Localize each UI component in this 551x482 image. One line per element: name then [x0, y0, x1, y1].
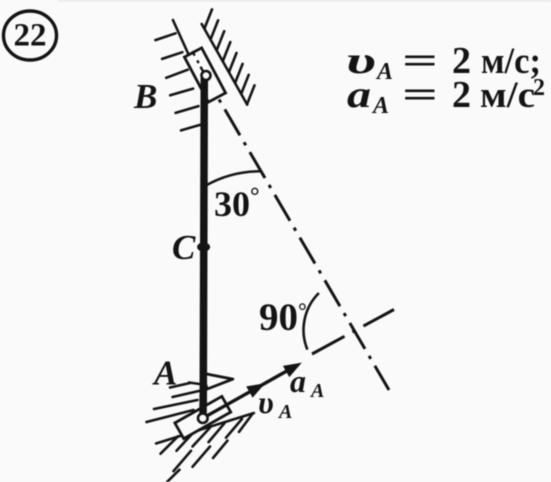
guide rails of slider B	[173, 20, 247, 105]
ground line under slider A	[156, 413, 254, 444]
hatching upper-left of slider A	[147, 383, 202, 422]
support triangle at A	[202, 373, 233, 389]
svg-text:2: 2	[533, 75, 545, 101]
dash-dot axis from B down to intersection	[219, 100, 389, 391]
svg-text:=: =	[402, 75, 438, 116]
dash-dot continuation beyond a_A	[312, 310, 394, 355]
rod stub over slider A	[199, 394, 207, 418]
arrowhead v_A	[247, 384, 264, 397]
problem number badge circle 22	[4, 11, 57, 60]
svg-text:υ: υ	[258, 384, 274, 420]
pin A	[198, 413, 208, 423]
short ledge line left of rod at A	[189, 383, 203, 385]
hatching right of slider B guide	[205, 9, 255, 104]
slider block A	[175, 396, 231, 438]
svg-text:22: 22	[14, 18, 47, 54]
svg-text:A: A	[277, 401, 292, 423]
svg-text:м/с: м/с	[480, 75, 535, 116]
scan artifact top line	[58, 0, 551, 2]
svg-text:2: 2	[452, 74, 471, 116]
hatching left of slider B guide	[155, 33, 204, 130]
ground hatching under slider A row 1	[161, 415, 253, 454]
svg-text:a: a	[290, 363, 306, 399]
slot centerline inside slider B	[192, 51, 203, 72]
svg-text:A: A	[375, 59, 393, 85]
svg-text:A: A	[371, 93, 389, 119]
given text line 2: a_A = 2 m/s^2	[347, 74, 545, 119]
svg-text:A: A	[309, 380, 324, 402]
ground hatching under slider A row 2	[167, 441, 228, 482]
svg-text:a: a	[347, 74, 371, 116]
90 degree arc	[304, 293, 319, 350]
rod AB	[203, 78, 204, 417]
point C dot	[197, 242, 210, 251]
30 degree arc	[205, 171, 260, 186]
svg-text:B: B	[133, 77, 157, 116]
arrowhead a_A	[284, 363, 301, 376]
pin B	[202, 71, 211, 80]
given text line 1: v_A = 2 m/s	[346, 40, 541, 85]
acceleration/velocity arrow line from A	[203, 366, 295, 418]
svg-text:C: C	[172, 228, 196, 267]
slider block B	[184, 48, 225, 102]
